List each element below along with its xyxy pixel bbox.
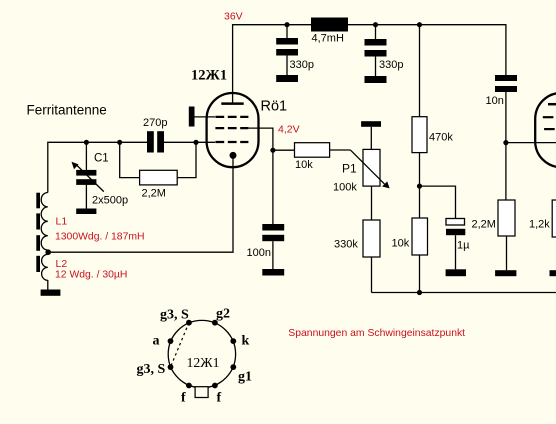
ground 2,2M: [495, 270, 516, 276]
svg-text:100n: 100n: [247, 247, 271, 259]
svg-text:C1: C1: [94, 153, 109, 165]
coil L1: [41, 193, 48, 251]
resistor 1,2k (clipped): [552, 200, 556, 237]
wire bottom rail: [372, 292, 556, 294]
wire 100n to ground: [272, 241, 274, 269]
svg-text:4,2V: 4,2V: [278, 123, 300, 135]
node bottom rail junction: [417, 290, 422, 295]
capacitor 330p (second): [365, 39, 387, 57]
ground 1,2k (clipped): [550, 270, 556, 276]
resistor 470k: [412, 117, 427, 153]
svg-text:f: f: [181, 391, 186, 406]
resistor 10k vertical: [412, 218, 428, 255]
svg-text:4,7mH: 4,7mH: [312, 33, 344, 45]
wire 330p cap2 drop: [375, 25, 377, 39]
svg-text:1300Wdg. / 187mH: 1300Wdg. / 187mH: [55, 232, 145, 243]
ground C1: [76, 209, 96, 215]
svg-text:1,2k: 1,2k: [529, 219, 550, 231]
wire P1 to 330k: [371, 186, 373, 220]
wire wiper arrow: [351, 150, 385, 184]
svg-text:g3, S: g3, S: [160, 308, 189, 323]
svg-text:a: a: [153, 334, 160, 349]
svg-text:g2: g2: [216, 307, 230, 322]
node coil tap junction: [45, 249, 51, 255]
wire 100n riser: [272, 150, 274, 224]
svg-text:g1: g1: [238, 370, 252, 385]
wire C1 lower: [85, 185, 87, 209]
svg-text:Spannungen am Schwingeinsatzpu: Spannungen am Schwingeinsatzpunkt: [288, 328, 465, 339]
svg-text:10k: 10k: [392, 238, 410, 250]
core ferrite (dashed): [36, 193, 40, 272]
wire 330p cap1 drop: [286, 25, 288, 38]
tube Rö1 grid g1 (dashed): [215, 116, 248, 118]
node g2 junction dot: [270, 148, 275, 153]
wire 10k vertical to rail: [419, 255, 421, 293]
wire g2 exit to junction: [248, 128, 273, 150]
svg-text:36V: 36V: [224, 11, 243, 23]
capacitor 330p (first): [276, 38, 298, 56]
socket internal g3 link (dotted): [171, 323, 189, 367]
capacitor 1u electrolytic: [446, 219, 465, 226]
resistor 10k horizontal: [295, 143, 330, 158]
svg-text:470k: 470k: [429, 132, 453, 144]
wire node to 1u cap: [420, 186, 456, 218]
wire 10k to wiper: [330, 149, 351, 151]
resistor 2,2M vertical: [498, 200, 515, 236]
svg-text:L2: L2: [56, 258, 68, 270]
tube Rö1 cathode dot: [230, 152, 237, 159]
svg-text:g3, S: g3, S: [137, 362, 166, 377]
ground 100n: [262, 269, 284, 276]
wire 330k to rail: [371, 257, 373, 293]
wire 330p cap1 ground: [286, 56, 288, 76]
wire g1 cap stub: [195, 116, 216, 118]
wire antenna top: [48, 142, 147, 192]
resistor 330k: [363, 220, 380, 257]
svg-text:100k: 100k: [333, 182, 357, 194]
inductor 4,7mH: [311, 18, 348, 32]
wire 330p cap2 ground: [375, 57, 377, 77]
svg-text:1µ: 1µ: [457, 240, 470, 252]
capacitor C1 variable: [76, 170, 96, 185]
coil L2: [42, 254, 48, 280]
wire node to 2,2M vertical: [505, 143, 507, 200]
svg-text:330p: 330p: [290, 59, 314, 71]
tube Rö2 envelope (clipped): [535, 93, 556, 167]
wire 470k top: [419, 25, 421, 117]
ground 1u: [446, 269, 466, 276]
svg-text:330p: 330p: [379, 59, 403, 71]
node tube2 junction dot: [503, 140, 508, 145]
capacitor 10n: [495, 75, 517, 92]
svg-text:10n: 10n: [486, 95, 504, 107]
svg-text:330k: 330k: [334, 239, 358, 251]
svg-text:12Ж1: 12Ж1: [187, 355, 220, 370]
wire 270p to grid junction: [164, 141, 215, 143]
wire cathode to coil tap: [48, 158, 233, 252]
wire 470k to node: [419, 153, 421, 187]
wire P1 terminal riser: [370, 127, 372, 150]
socket pin labels: [137, 307, 253, 406]
potentiometer P1: [363, 149, 380, 186]
svg-text:P1: P1: [342, 162, 357, 176]
ground 330p second: [365, 76, 387, 83]
svg-text:2x500p: 2x500p: [92, 195, 128, 207]
wire coil bottom to ground: [47, 280, 49, 290]
node grid junction dot: [193, 140, 198, 145]
wire node to 10k vertical: [419, 186, 421, 218]
wire junction to 10k: [273, 149, 295, 151]
resistor 2,2M grid leak: [140, 170, 178, 185]
wire 10n to tube2 node: [505, 92, 507, 143]
tube Rö1 grid g3 (dashed): [215, 141, 248, 143]
svg-text:k: k: [242, 334, 250, 349]
wire C1 upper: [85, 142, 87, 170]
tube Rö2 anode: [548, 103, 556, 106]
ground 330p first: [276, 75, 298, 82]
wire node to tube2 grid: [506, 142, 556, 144]
tube Rö1 grid g2 (dashed): [215, 127, 248, 129]
wire top rail 36V: [233, 25, 506, 104]
svg-text:f: f: [217, 391, 222, 406]
svg-text:12Ж1: 12Ж1: [191, 68, 227, 84]
svg-text:Rö1: Rö1: [261, 99, 288, 115]
tube Rö1 anode: [221, 102, 243, 105]
svg-text:Ferritantenne: Ferritantenne: [27, 102, 107, 117]
junction dots top rail: [284, 22, 289, 27]
wire 2,2M grid-leak branch: [120, 142, 140, 177]
tube Rö1 envelope: [207, 93, 259, 167]
socket diagram circle: [168, 320, 235, 387]
terminal grid cap bar: [189, 107, 195, 127]
svg-text:10k: 10k: [295, 159, 313, 171]
wire 1u to ground: [455, 235, 457, 269]
wire 2,2M vertical to ground: [506, 236, 508, 270]
svg-text:2,2M: 2,2M: [142, 188, 166, 200]
node 470k/10k junction: [417, 184, 422, 189]
wire 2,2M right to grid junction: [177, 142, 196, 177]
svg-text:12 Wdg. / 30µH: 12 Wdg. / 30µH: [55, 270, 127, 281]
ground coil: [41, 290, 61, 296]
svg-text:2,2M: 2,2M: [472, 219, 496, 231]
capacitor 270p: [147, 131, 164, 152]
socket key square: [195, 387, 208, 398]
socket pin dots: [168, 320, 237, 389]
capacitor 100n: [262, 224, 284, 241]
node junction dots antenna wire: [84, 140, 89, 145]
svg-text:270p: 270p: [143, 117, 167, 129]
terminal P1 top bar: [361, 121, 381, 127]
svg-text:L1: L1: [56, 216, 68, 228]
tube Rö2 grids (dashed): [543, 116, 556, 118]
